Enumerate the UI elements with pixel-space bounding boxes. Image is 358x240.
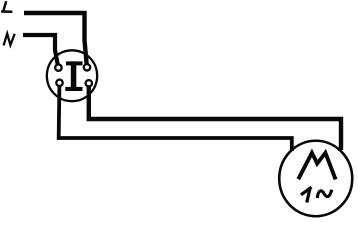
switch terminal bottom-right [86, 80, 92, 86]
switch terminal bottom-left [56, 80, 62, 86]
switch actuator bar (I) [65, 61, 82, 91]
wire switch bottom-right terminal to motor top [89, 84, 341, 150]
switch terminal top-right [84, 64, 90, 70]
switch terminal top-left [55, 64, 61, 70]
switch S1 body [47, 50, 97, 101]
wire switch bottom-left terminal to motor left [59, 84, 292, 151]
wire L feed (L to switch top-right terminal) [24, 13, 87, 66]
net label L [1, 1, 12, 12]
wire N feed (N to switch top-left terminal) [23, 35, 58, 67]
motor letter M [298, 153, 335, 180]
net label N [4, 34, 15, 46]
motor phase label ~ [317, 190, 332, 198]
motor M1 body [279, 141, 352, 217]
motor phase label 1 [301, 187, 312, 202]
